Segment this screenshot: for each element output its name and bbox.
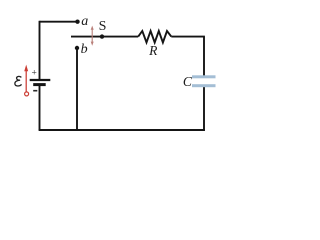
battery: short thick - plate xyxy=(33,83,46,86)
svg-text:+: + xyxy=(32,69,37,79)
svg-text:R: R xyxy=(148,43,158,58)
EMF direction red arrow with tail circle xyxy=(24,65,28,96)
wire: right rail upper segment (capacitor top plate up to top-right corner) xyxy=(203,37,205,76)
node a (contact dot) xyxy=(75,20,79,24)
wire: top-right horizontal from corner to resistor right lead xyxy=(171,36,205,38)
wire: left rail lower segment (battery - plate down to bottom rail) xyxy=(39,85,41,130)
wire: top-left horizontal from left rail to contact a xyxy=(40,21,77,23)
svg-text:C: C xyxy=(183,74,193,89)
svg-text:S: S xyxy=(99,19,107,34)
resistor R zigzag xyxy=(138,31,171,43)
wire: switch blade and lead to resistor xyxy=(71,36,138,38)
wire: branch from contact b down to bottom rail xyxy=(76,49,78,130)
node b (contact dot) xyxy=(75,46,79,50)
battery - sign xyxy=(33,90,37,92)
capacitor C top plate (blue) xyxy=(192,75,216,78)
battery: long thin + plate xyxy=(30,79,51,81)
capacitor C bottom plate (blue) xyxy=(192,84,216,87)
switch toggle red double arrow xyxy=(91,26,94,46)
wire: right rail lower segment (bottom rail up to capacitor bottom plate) xyxy=(203,87,205,131)
svg-text:b: b xyxy=(81,42,88,57)
wire: bottom rail xyxy=(39,129,205,131)
EMF script-E symbol xyxy=(15,76,22,86)
wire: left rail upper segment (corner down to battery + plate) xyxy=(39,21,41,80)
switch pivot node S xyxy=(100,34,104,38)
svg-text:a: a xyxy=(81,14,88,29)
